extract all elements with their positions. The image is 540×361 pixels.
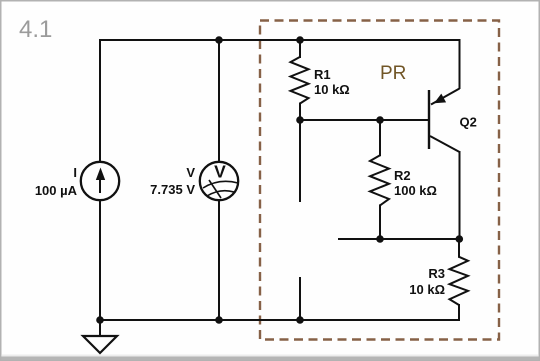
junction R2 bottom bbox=[376, 235, 384, 243]
svg-text:10 kΩ: 10 kΩ bbox=[314, 82, 350, 97]
ground bbox=[83, 320, 117, 353]
junction voltmeter bottom bbox=[215, 316, 223, 324]
wire R1 bottom lead bbox=[299, 104, 301, 121]
wire R3 bottom lead bbox=[458, 305, 460, 320]
svg-text:7.735 V: 7.735 V bbox=[150, 182, 195, 197]
wire voltmeter bottom bbox=[218, 201, 220, 320]
wire R1 top lead bbox=[299, 40, 301, 57]
wire collector down bbox=[459, 152, 461, 239]
svg-text:100 kΩ: 100 kΩ bbox=[394, 183, 437, 198]
junction R2 top bbox=[376, 116, 384, 124]
svg-text:PR: PR bbox=[380, 63, 406, 84]
junction R1 bottom / base bbox=[296, 116, 304, 124]
wire voltmeter top bbox=[218, 40, 220, 161]
transistor Q2 bbox=[429, 89, 460, 153]
resistor R3 bbox=[450, 257, 469, 305]
resistor R2 bbox=[370, 155, 389, 205]
svg-text:10 kΩ: 10 kΩ bbox=[409, 282, 445, 297]
wire current source bottom bbox=[99, 201, 101, 320]
svg-text:100 µA: 100 µA bbox=[35, 183, 78, 198]
junction ground bbox=[96, 316, 104, 324]
wire emitter to top rail bbox=[459, 40, 461, 88]
wire base rail bbox=[300, 119, 428, 121]
svg-text:R2: R2 bbox=[394, 168, 411, 183]
junction top voltmeter bbox=[215, 36, 223, 44]
voltmeter V bbox=[200, 162, 238, 201]
svg-text:V: V bbox=[186, 165, 195, 180]
svg-text:I: I bbox=[73, 165, 77, 180]
wire top rail bbox=[100, 39, 460, 41]
wire R2 top lead bbox=[379, 120, 381, 155]
svg-text:R1: R1 bbox=[314, 67, 331, 82]
junction stub bottom bbox=[296, 316, 304, 324]
wire middle rail bbox=[339, 238, 459, 240]
svg-text:4.1: 4.1 bbox=[19, 16, 52, 43]
svg-text:V: V bbox=[214, 162, 226, 182]
svg-text:R3: R3 bbox=[428, 266, 445, 281]
wire open stub upper bbox=[299, 121, 301, 201]
resistor R1 bbox=[291, 57, 309, 104]
wire R3 top lead bbox=[458, 239, 460, 257]
current source I bbox=[81, 162, 119, 200]
dashed box PR boundary bbox=[260, 21, 499, 340]
svg-text:Q2: Q2 bbox=[460, 115, 477, 130]
junction R3 top bbox=[456, 235, 464, 243]
wire bottom rail bbox=[100, 319, 459, 321]
junction top R1 bbox=[296, 36, 304, 44]
wire current source top bbox=[99, 40, 101, 161]
wire open stub lower bbox=[299, 278, 301, 320]
wire R2 bottom lead bbox=[379, 205, 381, 239]
